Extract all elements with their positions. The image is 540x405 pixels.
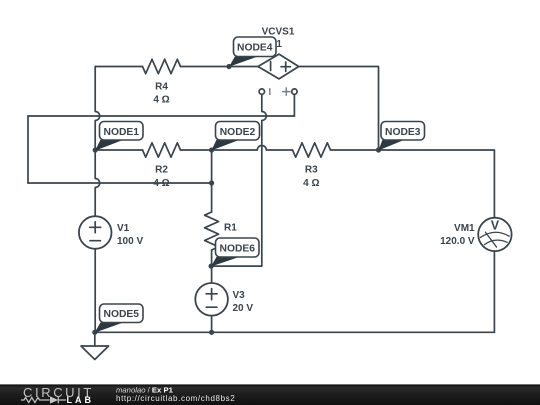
svg-text:NODE2: NODE2 xyxy=(220,127,256,138)
node NODE1 junction xyxy=(93,147,98,152)
wire left loop vertical xyxy=(27,116,29,183)
node NODE5 xyxy=(100,304,144,323)
wire NODE2 down to lower rail xyxy=(211,150,213,183)
svg-text:20 V: 20 V xyxy=(233,303,254,314)
svg-text:120.0 V: 120.0 V xyxy=(440,236,475,247)
svg-text:4 Ω: 4 Ω xyxy=(153,95,169,106)
resistor R1 xyxy=(205,212,219,250)
V1 minus sign xyxy=(90,240,101,242)
svg-text:100 V: 100 V xyxy=(117,236,143,247)
VCVS1 control minus sign xyxy=(269,88,271,95)
svg-text:4 Ω: 4 Ω xyxy=(153,178,169,189)
ground triangle xyxy=(81,346,109,360)
node NODE6 pointer xyxy=(211,257,240,267)
resistor R4 xyxy=(143,59,181,73)
svg-text:LAB: LAB xyxy=(67,395,95,405)
svg-text:NODE5: NODE5 xyxy=(104,309,140,320)
node NODE2 pointer xyxy=(211,140,239,151)
wire R1 bottom to NODE6 xyxy=(211,250,213,266)
wire NODE1 rail with R2 xyxy=(95,149,142,151)
wire VCVS plus control stub xyxy=(293,95,295,116)
voltage source V3 xyxy=(195,283,228,316)
node label texts xyxy=(104,43,421,321)
resistor R2 xyxy=(143,143,181,157)
svg-text:V3: V3 xyxy=(233,290,246,301)
voltmeter VM1 xyxy=(478,218,511,251)
VCVS control terminal plus xyxy=(292,89,297,94)
node label pointers xyxy=(95,56,405,332)
VM1 needle xyxy=(485,232,496,247)
wire VCVS minus control down to NODE6 xyxy=(212,95,267,266)
wire lower rail y183 xyxy=(28,182,212,184)
node V3 bottom junction xyxy=(209,330,214,335)
wire R3 to NODE3 xyxy=(331,149,379,151)
control polarity signs xyxy=(270,87,291,95)
node R2 lower junction xyxy=(209,180,214,185)
node NODE5 pointer xyxy=(95,322,124,332)
V3 minus sign xyxy=(206,306,217,308)
svg-text:V: V xyxy=(491,218,500,232)
node A top junction (NODE4) xyxy=(226,64,231,69)
svg-text:NODE4: NODE4 xyxy=(237,43,273,54)
resistor R3 xyxy=(293,143,331,157)
wire V1 bottom to NODE5 xyxy=(94,249,96,332)
node NODE1 xyxy=(100,122,144,141)
node NODE6 xyxy=(216,238,260,257)
wire V3 top stub xyxy=(211,266,213,283)
svg-text:VM1: VM1 xyxy=(454,223,475,234)
svg-text:R4: R4 xyxy=(155,81,168,92)
node NODE3 pointer xyxy=(378,140,404,151)
op-amp VCVS1 diamond xyxy=(258,54,299,79)
ground xyxy=(94,332,96,346)
node NODE5 junction xyxy=(92,330,97,335)
CircuitLab logo resistor+diode xyxy=(21,397,66,404)
node NODE4 xyxy=(234,37,277,57)
wire control rail y116 xyxy=(28,115,294,117)
wire left rail with hops xyxy=(95,67,100,217)
svg-text:http://circuitlab.com/chd8bs2: http://circuitlab.com/chd8bs2 xyxy=(116,394,235,403)
V3 plus sign xyxy=(206,289,217,300)
svg-text:1: 1 xyxy=(276,39,282,50)
wire NODE3 to right rail xyxy=(379,150,495,218)
wire R1 top stub xyxy=(211,183,213,212)
VCVS1 plus sign xyxy=(281,62,290,71)
wire V3 bottom stub xyxy=(211,316,213,333)
voltage source V1 xyxy=(79,216,112,249)
svg-text:R3: R3 xyxy=(305,165,318,176)
node NODE3 xyxy=(381,122,425,141)
svg-text:R1: R1 xyxy=(224,223,237,234)
node NODE4 pointer xyxy=(229,56,258,66)
svg-text:4 Ω: 4 Ω xyxy=(303,178,319,189)
node NODE3 junction xyxy=(376,147,381,152)
node NODE2 xyxy=(216,122,260,141)
svg-text:V1: V1 xyxy=(117,223,130,234)
wire bottom rail xyxy=(95,331,495,333)
wire R4 to VCVS xyxy=(181,66,259,68)
VCVS1 control plus sign xyxy=(282,87,290,95)
svg-text:NODE6: NODE6 xyxy=(220,244,256,255)
VCVS control terminal minus xyxy=(259,89,264,94)
svg-text:VCVS1: VCVS1 xyxy=(262,26,295,37)
footer bar xyxy=(0,384,540,405)
node NODE2 junction xyxy=(209,147,214,152)
node label boxes xyxy=(100,37,425,323)
wire VM1 bottom to bottom rail xyxy=(493,251,495,332)
svg-text:NODE3: NODE3 xyxy=(385,127,421,138)
svg-text:NODE1: NODE1 xyxy=(104,127,140,138)
node NODE6 junction xyxy=(209,264,214,269)
wire top rail left segment xyxy=(95,66,142,68)
node NODE1 pointer xyxy=(95,140,124,151)
wire VCVS output to NODE3 corner xyxy=(299,67,379,151)
wire R2 to NODE2 xyxy=(181,149,212,151)
VM1 dial arc upper xyxy=(480,232,509,237)
wire NODE2 to R3 with hop xyxy=(212,146,293,151)
V1 plus sign xyxy=(90,222,101,233)
svg-text:R2: R2 xyxy=(155,165,168,176)
VCVS1 minus bar xyxy=(270,62,272,71)
VM1 dial arc lower xyxy=(484,240,507,244)
